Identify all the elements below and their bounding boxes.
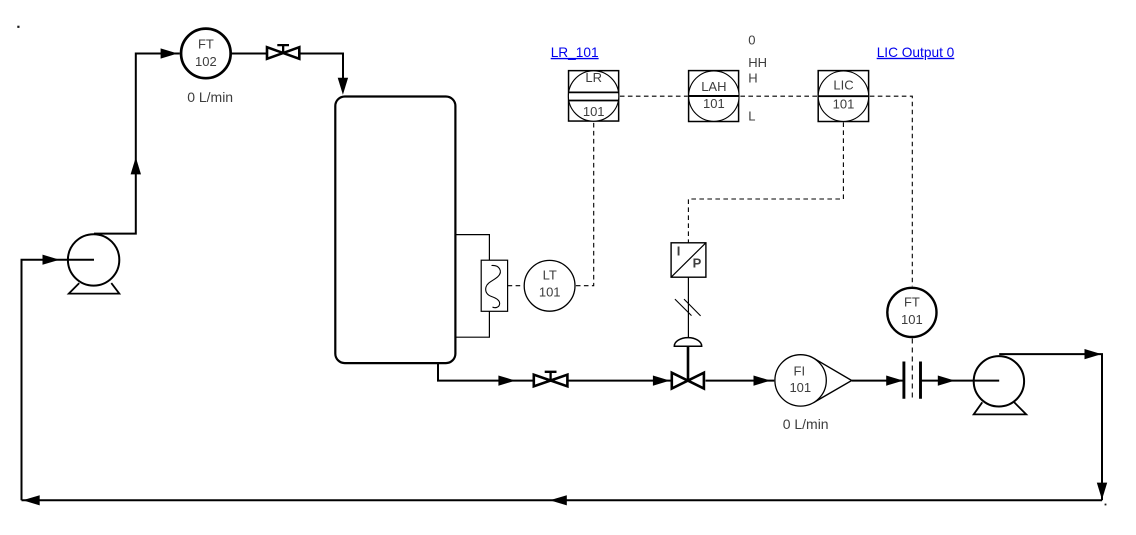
wire: control valve CV1 to FI101: [706, 380, 775, 382]
arrow into FT102: [161, 48, 178, 58]
svg-text:LT: LT: [543, 268, 557, 283]
svg-text:HH: HH: [748, 55, 767, 70]
LAH101 circle: [689, 71, 739, 121]
svg-text:FI: FI: [794, 364, 806, 379]
instrument LAH101 square: [689, 71, 739, 122]
svg-text:FT: FT: [904, 294, 920, 309]
instrument FT102 circle: [181, 29, 231, 79]
pump P2 body: [974, 356, 1024, 406]
hand valve HV2 T-handle: [545, 372, 557, 381]
wire: pump P1 outlet riser to FT102: [94, 54, 180, 234]
LIC101 center line: [818, 95, 868, 97]
svg-text:LIC Output 0: LIC Output 0: [877, 45, 955, 60]
wire: recycle return left riser and inlet to pump P1: [22, 260, 95, 501]
svg-text:LIC: LIC: [833, 78, 853, 93]
svg-text:101: 101: [789, 380, 811, 395]
arrow at bottom left corner: [23, 495, 40, 505]
control valve CV1 actuator dome: [674, 338, 701, 347]
signal wire: LIC101 to FT101 (dashed): [870, 96, 913, 286]
svg-text:L: L: [748, 108, 755, 123]
svg-text:LR: LR: [585, 70, 602, 85]
wire: hand valve HV2 to control valve CV1: [568, 380, 670, 382]
instrument LR101 square: [569, 71, 619, 121]
dot artifact top-left: [17, 26, 19, 28]
hand valve HV2 bowtie: [534, 375, 568, 387]
svg-text:P: P: [693, 256, 702, 271]
LIC101 circle: [818, 71, 868, 121]
arrow into FI101: [754, 376, 771, 386]
signal wire: sensor to LT101 (dashed): [508, 285, 524, 287]
instrument FI101 circle: [775, 355, 826, 406]
dot artifact bottom-right: [1105, 504, 1107, 506]
wire: hand valve HV1 to tank inlet: [300, 54, 343, 83]
svg-text:101: 101: [539, 284, 561, 299]
arrow into tank top: [338, 78, 348, 95]
instrument FI101 cone: [814, 358, 852, 402]
signal wire: LT101 to LR101 (dashed): [576, 122, 594, 285]
arrow into control valve CV1: [653, 376, 670, 386]
arrow at top right corner: [1085, 349, 1102, 359]
signal wire: FT101 to orifice (dashed): [911, 339, 913, 399]
pump P1 body: [68, 234, 119, 285]
svg-text:I: I: [677, 243, 681, 258]
arrow into orifice plate: [886, 376, 903, 386]
LR101 circle: [568, 71, 618, 121]
arrow mid bottom return: [550, 495, 567, 505]
wire: orifice plate to pump P2: [921, 380, 1000, 382]
pump P1 pedestal: [69, 283, 120, 294]
I/P output signal line: [687, 277, 689, 337]
tank T1: [335, 97, 455, 364]
svg-text:0 L/min: 0 L/min: [187, 89, 233, 105]
signal wire: LAH101 to LIC101 (dashed): [740, 95, 817, 97]
svg-text:0: 0: [748, 33, 755, 48]
control valve CV1 stem: [687, 346, 690, 381]
instrument LT101 circle: [524, 260, 575, 311]
wire: FT102 to hand valve HV1: [231, 53, 266, 55]
arrow into pump P1: [43, 255, 60, 265]
level sensor bracket upper: [456, 235, 490, 261]
svg-text:LR_101: LR_101: [551, 45, 599, 60]
hand valve HV1 bowtie: [267, 47, 299, 59]
level sensor element box: [481, 260, 507, 311]
orifice plate flange bars: [904, 362, 921, 399]
arrow after tank outlet: [498, 376, 515, 386]
svg-text:FT: FT: [198, 37, 214, 52]
hand valve HV1 T-handle: [277, 45, 289, 53]
svg-text:101: 101: [703, 96, 725, 111]
I/P converter diagonal: [671, 243, 706, 277]
level sensor squiggle: [486, 265, 501, 307]
wire: tank outlet to hand valve HV2: [438, 364, 533, 381]
arrow up on riser: [131, 157, 141, 174]
control valve CV1 bowtie: [672, 373, 704, 389]
wire: pump P2 outlet to right riser down: [999, 354, 1102, 500]
level sensor bracket lower: [456, 311, 490, 337]
svg-text:101: 101: [583, 104, 605, 119]
signal slashes: [675, 299, 701, 316]
svg-text:H: H: [748, 71, 757, 86]
LR101 display band: [569, 93, 618, 99]
svg-text:LAH: LAH: [701, 79, 726, 94]
LAH101 center line: [689, 95, 739, 97]
svg-text:102: 102: [195, 54, 217, 69]
pump P2 pedestal: [974, 402, 1026, 414]
wire: FI101 cone to orifice plate: [852, 380, 904, 382]
I/P converter box: [671, 243, 706, 277]
svg-text:101: 101: [901, 312, 923, 327]
signal wire: LR101 to LAH101 (dashed): [620, 95, 688, 97]
svg-text:101: 101: [833, 97, 855, 112]
instrument FT101 circle: [887, 288, 936, 337]
svg-text:0 L/min: 0 L/min: [783, 416, 829, 432]
arrow down at bottom right corner: [1097, 483, 1107, 500]
arrow after orifice plate: [938, 376, 955, 386]
instrument LIC101 square: [818, 71, 868, 122]
wire: bottom return line: [22, 499, 1103, 501]
signal wire: LIC101 to I/P converter (dashed): [688, 122, 843, 242]
